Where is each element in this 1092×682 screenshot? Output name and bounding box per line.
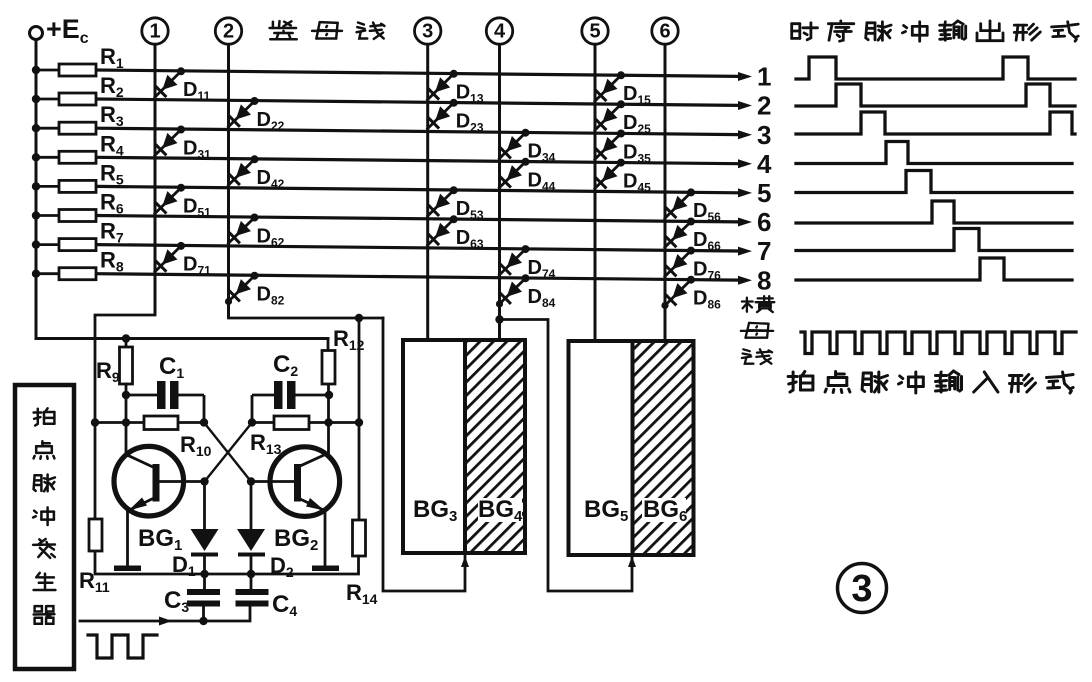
node (vertical bus) circled 5 <box>582 18 608 44</box>
junction col4 horizontal bus <box>495 315 503 323</box>
capacitor C4 <box>236 589 269 595</box>
wire column 2 <box>227 44 230 318</box>
output arrow row 7 <box>738 247 752 256</box>
input waveform symbol <box>88 635 157 658</box>
junction row 1 on +Ec rail <box>32 66 40 74</box>
figure number 3 <box>838 564 887 613</box>
block: pulse generator 拍点脉冲发生器 <box>15 385 74 669</box>
wire col1 node down to R11 <box>94 423 97 520</box>
arrow into BG5/BG6 <box>628 556 636 567</box>
wire D1 to C3 <box>203 555 206 590</box>
output arrow row 5 <box>738 188 752 197</box>
wire: +Ec left rail down and top supply rail <box>36 40 328 339</box>
diode D23 <box>427 103 454 130</box>
waveform output 4 <box>796 142 1072 164</box>
diode D11 <box>154 71 181 98</box>
label 横母线 (horizontal bus) <box>746 298 748 312</box>
waveform clock input (comb) <box>801 332 1076 354</box>
capacitor C2 <box>252 394 274 397</box>
diode D56 <box>664 192 691 219</box>
junction row 4 on +Ec rail <box>32 153 40 161</box>
junction C2/R12 <box>325 391 333 399</box>
svg-text:3: 3 <box>851 568 872 610</box>
diode D42 <box>227 159 254 186</box>
node (vertical bus) circled 4 <box>486 18 512 44</box>
label 拍点脉冲输入形式 <box>788 375 797 378</box>
diode D76 <box>664 251 691 278</box>
ground BG1 <box>114 566 141 572</box>
wire R14 bottom to D rail <box>95 551 359 574</box>
svg-text:2: 2 <box>223 21 234 43</box>
output arrow row 4 <box>738 159 752 168</box>
svg-text:8: 8 <box>757 265 771 295</box>
svg-text:3: 3 <box>757 120 771 150</box>
resistor R6 <box>36 214 59 217</box>
transistor BG2 <box>270 447 340 517</box>
waveform output 1 <box>796 57 1075 79</box>
diode D15 <box>594 75 621 102</box>
diode D51 <box>154 188 181 215</box>
junction BG1 base node <box>200 477 208 485</box>
block BG6 (hatched) <box>633 341 694 555</box>
wire row 7 <box>96 245 739 251</box>
resistor R8 <box>36 272 59 275</box>
wire to BG3 block trigger <box>383 318 465 591</box>
arrow trigger direction <box>159 617 172 626</box>
svg-text:6: 6 <box>659 21 670 43</box>
diode D66 <box>664 222 691 249</box>
junction row 7 on +Ec rail <box>32 240 40 248</box>
output arrow row 1 <box>738 72 752 81</box>
diode D31 <box>154 130 181 157</box>
label 时序脉冲输出形式 <box>790 24 793 39</box>
diode D35 <box>594 134 621 161</box>
wire row 2 <box>96 99 739 105</box>
diode D25 <box>594 104 621 131</box>
diode D63 <box>427 219 454 246</box>
wire column 4 <box>498 44 501 340</box>
junction BG2 base node <box>247 477 255 485</box>
svg-text:6: 6 <box>757 207 771 237</box>
diode D86 <box>664 280 691 307</box>
waveform output 8 <box>796 258 1072 280</box>
resistor R9 <box>125 339 128 348</box>
output arrow row 2 <box>738 101 752 110</box>
junction col6 D86 <box>661 302 668 309</box>
output arrow row 3 <box>738 130 752 139</box>
node (vertical bus) circled 3 <box>415 18 441 44</box>
output arrow row 8 <box>738 276 752 285</box>
svg-text:4: 4 <box>757 149 772 179</box>
junction BG2 collector on rail <box>324 418 332 426</box>
junction col4 D84 <box>496 300 503 307</box>
waveform output 6 <box>796 201 1072 223</box>
svg-text:5: 5 <box>589 21 600 43</box>
resistor R5 <box>36 185 59 188</box>
svg-text:7: 7 <box>757 236 771 266</box>
junction row 2 on +Ec rail <box>32 95 40 103</box>
diode D71 <box>154 246 181 273</box>
diode D53 <box>427 190 454 217</box>
wire row 8 <box>96 274 739 280</box>
resistor R2 <box>36 98 59 101</box>
wire column 6 <box>664 44 667 341</box>
diode D45 <box>594 163 621 190</box>
node (vertical bus) circled 2 <box>215 18 241 44</box>
junction R9 top on supply rail <box>122 334 130 342</box>
wire BG1 emitter <box>126 511 129 567</box>
resistor R7 <box>36 243 59 246</box>
output arrow row 6 <box>738 218 752 227</box>
diode D1 <box>203 482 206 530</box>
junction left rail-col1 <box>91 418 99 426</box>
svg-text:1: 1 <box>149 21 160 43</box>
resistor R4 <box>36 156 59 159</box>
wire row 3 <box>96 128 739 134</box>
waveform output 3 <box>796 112 1075 134</box>
svg-text:4: 4 <box>494 21 506 43</box>
resistor R3 <box>36 127 59 130</box>
svg-text:2: 2 <box>757 91 771 121</box>
node B junction (C2/R13) <box>248 418 256 426</box>
junction col2 bus / R14 branch <box>355 314 363 322</box>
wire base rail left <box>95 421 144 424</box>
svg-text:5: 5 <box>757 178 771 208</box>
wire column 1 <box>154 44 157 315</box>
block BG3 <box>403 340 465 553</box>
wire col1 to multivibrator left <box>95 315 155 423</box>
node (vertical bus) circled 1 <box>142 18 168 44</box>
resistor R14 <box>353 520 366 556</box>
junction row 3 on +Ec rail <box>32 124 40 132</box>
waveform output 2 <box>796 84 1075 106</box>
arrow into BG3/BG4 <box>461 556 469 567</box>
diode D34 <box>498 133 525 160</box>
node A junction (C1/R10) <box>200 418 208 426</box>
wire BG2 emitter <box>324 511 327 567</box>
junction row 6 on +Ec rail <box>32 211 40 219</box>
diode D2 <box>250 482 253 530</box>
diode D62 <box>227 218 254 245</box>
capacitor C1 <box>126 394 157 397</box>
block BG4 (hatched) <box>465 340 525 553</box>
junction R14 on rail <box>355 418 363 426</box>
resistor R10 <box>144 416 178 430</box>
resistor R12 <box>327 339 330 351</box>
label 竖母线 (vertical bus) <box>272 22 275 28</box>
resistor R13 <box>252 421 274 424</box>
wire trigger rail from pulse generator <box>80 607 250 622</box>
wire row 1 <box>96 70 739 76</box>
resistor R11 <box>89 519 102 551</box>
cross-coupling wire B to BG1 base <box>205 423 253 482</box>
diode D82 <box>227 276 254 303</box>
diode D22 <box>227 101 254 128</box>
wire row 5 <box>96 186 739 192</box>
wire col4 bus to BG5 trigger <box>500 320 633 592</box>
wire col2 horizontal bus <box>229 317 384 320</box>
transistor BG1 <box>114 446 184 516</box>
junction C3 trigger rail <box>199 617 207 625</box>
svg-text:3: 3 <box>422 21 433 43</box>
junction D2 bottom rail <box>247 570 255 578</box>
resistor R1 <box>36 69 59 72</box>
wire row 4 <box>96 157 739 163</box>
block BG5 <box>569 341 633 555</box>
junction C1 left <box>122 391 130 399</box>
junction col2 D82 <box>225 298 232 305</box>
diode D84 <box>498 278 525 305</box>
wire column 5 <box>594 44 597 341</box>
diode D13 <box>427 74 454 101</box>
diode D74 <box>498 249 525 276</box>
junction R9/collector on rail <box>122 418 130 426</box>
waveform output 5 <box>796 171 1072 193</box>
wire column 3 <box>426 44 429 340</box>
waveform output 7 <box>796 229 1072 251</box>
wire col2-node down to R14 <box>358 318 361 520</box>
wire row 6 <box>96 216 739 222</box>
wire BG2 collector <box>299 423 329 467</box>
power terminal +Ec <box>30 27 43 40</box>
svg-text:1: 1 <box>757 62 771 92</box>
cross-coupling wire A to BG2 base <box>204 423 251 482</box>
node (vertical bus) circled 6 <box>652 18 678 44</box>
capacitor C3 <box>187 589 220 595</box>
junction row 8 on +Ec rail <box>32 270 40 278</box>
wire R9 to BG1 collector <box>126 384 154 468</box>
junction row 5 on +Ec rail <box>32 182 40 190</box>
ground BG2 <box>312 566 339 572</box>
diode D44 <box>498 162 525 189</box>
junction D1 bottom rail <box>200 570 208 578</box>
